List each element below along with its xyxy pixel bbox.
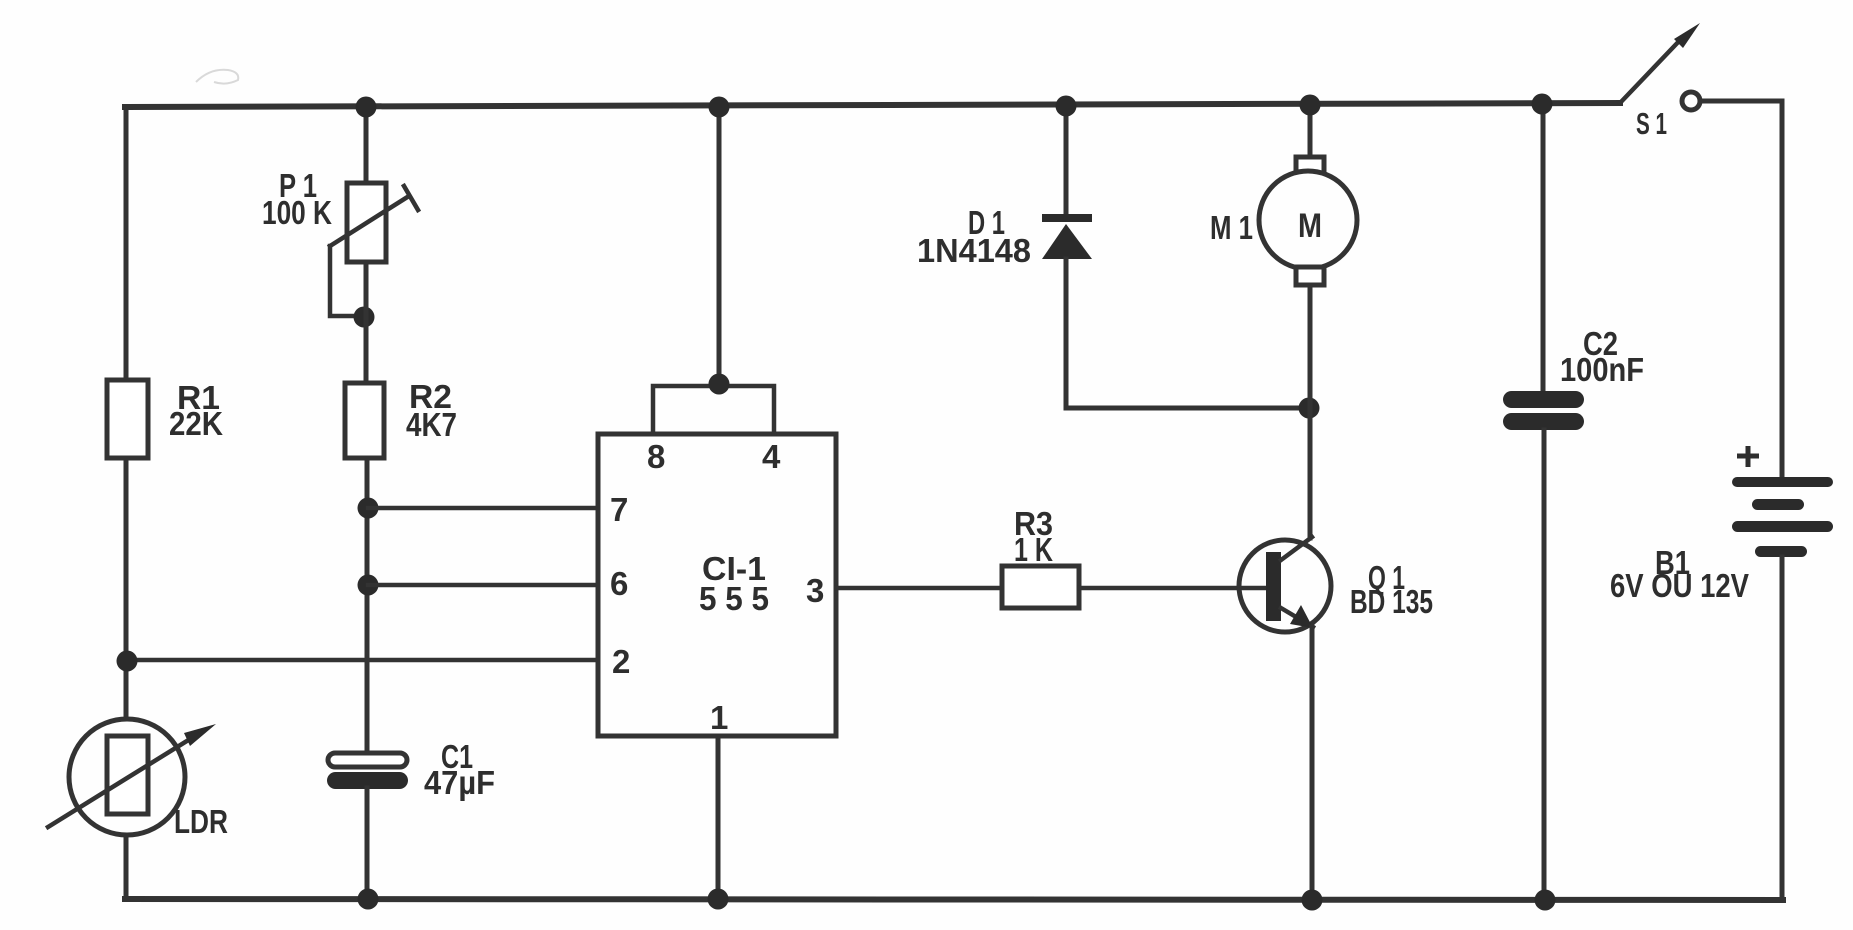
- wire Q1 emitter to bottom rail: [1310, 627, 1315, 900]
- svg-text:8: 8: [647, 438, 665, 475]
- svg-text:M 1: M 1: [1210, 209, 1253, 246]
- svg-text:1 K: 1 K: [1014, 531, 1053, 568]
- wire C2 bottom to bottom rail: [1542, 430, 1547, 900]
- node R2 / pin7 junction: [358, 498, 379, 519]
- wire bottom rail: [125, 899, 1783, 900]
- node top rail / C2: [1532, 94, 1553, 115]
- wire P1 wiper to bottom terminal: [330, 246, 362, 316]
- svg-text:7: 7: [610, 491, 628, 528]
- svg-text:6V OU 12V: 6V OU 12V: [1610, 567, 1749, 604]
- wire D1 anode down and right to motor bottom node: [1066, 259, 1308, 408]
- node bracket junction: [709, 374, 730, 395]
- wire C2 branch from top rail: [1541, 104, 1546, 393]
- svg-text:47µF: 47µF: [424, 764, 495, 801]
- node left rail / pin2 junction: [117, 651, 138, 672]
- node D1 / M1 junction: [1299, 398, 1320, 419]
- svg-text:2: 2: [612, 643, 630, 680]
- potentiometer P1: [262, 167, 418, 262]
- resistor R2: [345, 378, 457, 458]
- svg-text:100nF: 100nF: [1560, 351, 1644, 388]
- wire pin 6: [368, 583, 598, 588]
- wire left rail: [124, 107, 129, 899]
- wire pin 2 line from left rail to IC: [126, 658, 598, 663]
- wire D1 branch from top rail: [1064, 107, 1069, 214]
- node bottom rail / C1: [358, 889, 379, 910]
- motor M1: [1210, 157, 1357, 285]
- wire C1 bottom to bottom rail: [365, 788, 370, 899]
- resistor R3: [1002, 505, 1079, 608]
- node bottom rail / Q1 emitter: [1302, 890, 1323, 911]
- node top rail / D1: [1056, 96, 1077, 117]
- svg-text:1N4148: 1N4148: [917, 232, 1031, 269]
- wire M1 bottom to Q1 collector: [1308, 285, 1313, 538]
- capacitor C2 100nF: [1503, 325, 1644, 430]
- wire R3 to Q1 base: [1079, 586, 1266, 591]
- node top rail / P1 branch: [356, 97, 377, 118]
- battery B1: [1610, 446, 1833, 604]
- svg-text:BD 135: BD 135: [1350, 583, 1433, 620]
- wire S1 terminal to right rail corner: [1701, 99, 1782, 104]
- wire M1 branch from top rail: [1308, 107, 1313, 157]
- svg-text:6: 6: [610, 565, 628, 602]
- node top rail / 555 feed: [709, 97, 730, 118]
- node top rail / M1: [1300, 95, 1321, 116]
- diode D1 1N4148: [917, 204, 1092, 269]
- wire pin 1 to bottom rail: [716, 736, 721, 899]
- IC CI-1 555 timer: [598, 434, 836, 736]
- svg-text:1: 1: [710, 699, 728, 736]
- svg-text:LDR: LDR: [174, 803, 228, 840]
- svg-text:22K: 22K: [169, 405, 223, 442]
- wire pin 7: [368, 506, 598, 511]
- resistor R1: [107, 379, 223, 458]
- wire top rail: [125, 103, 1620, 107]
- wire P1 branch from top rail: [364, 107, 369, 183]
- svg-text:4K7: 4K7: [406, 406, 457, 443]
- wire pin 3 to R3: [836, 586, 1002, 591]
- svg-text:3: 3: [806, 572, 824, 609]
- svg-text:5 5 5: 5 5 5: [699, 580, 769, 617]
- wire P1 bottom to R2: [364, 262, 369, 383]
- svg-text:M: M: [1298, 207, 1322, 245]
- svg-text:4: 4: [762, 438, 781, 475]
- capacitor C1: [327, 738, 495, 801]
- svg-text:100 K: 100 K: [262, 194, 332, 231]
- node bottom rail / pin1: [708, 889, 729, 910]
- node P1 wiper junction: [354, 307, 375, 328]
- node pin6 junction: [358, 575, 379, 596]
- wire R2 bottom down to C1: [365, 458, 370, 757]
- wire pins 8 and 4 bracket: [653, 386, 774, 434]
- switch S1: [1620, 23, 1700, 141]
- transistor Q1 BD135: [1239, 537, 1433, 632]
- wire 555 top feed from top rail: [717, 107, 722, 386]
- svg-text:S 1: S 1: [1636, 106, 1667, 141]
- wire right rail lower segment: [1780, 557, 1785, 900]
- LDR: [48, 719, 228, 840]
- wire right rail upper segment: [1780, 101, 1785, 478]
- node bottom rail / C2: [1535, 890, 1556, 911]
